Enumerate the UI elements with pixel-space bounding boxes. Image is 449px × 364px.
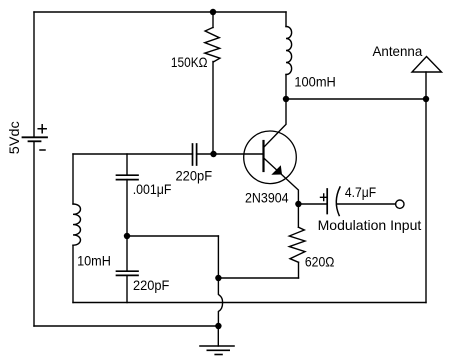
wire collector path [264, 99, 286, 147]
node dot antenna junction [423, 96, 429, 102]
wire .001 cap bottom stub [126, 180, 128, 236]
wire 620 bottom horizontal [218, 277, 298, 279]
capacitor C4 curved plate [336, 187, 340, 216]
capacitor C3 220pF bottom [117, 271, 139, 275]
battery minus sign [40, 149, 45, 151]
resistor R2 620 [289, 227, 305, 262]
capacitor C4 4.7uF straight plate [326, 189, 328, 214]
capacitor C1 220pF top [193, 144, 197, 165]
transistor Q1 circle [244, 131, 297, 184]
wire resistor drop top [212, 12, 214, 28]
node dot ground junction [215, 323, 221, 329]
node dot emitter junction [295, 201, 301, 207]
svg-text:10mH: 10mH [77, 252, 111, 268]
wire top rail [34, 11, 286, 13]
wire antenna lead [425, 72, 427, 99]
wire inner left upper [72, 154, 74, 204]
node dot cap junction [124, 233, 130, 239]
wire vertical to 620 bottom [217, 236, 219, 278]
ground symbol [200, 346, 234, 355]
wire base wire [214, 153, 264, 155]
svg-text:220pF: 220pF [176, 168, 213, 184]
resistor R1 150K [205, 27, 220, 62]
wire right rail [425, 99, 427, 303]
wire cap to node [197, 153, 214, 155]
wire inductor bottom lead [285, 75, 287, 100]
node dot top resistor [210, 9, 216, 15]
inductor L2 10mH [73, 204, 81, 245]
wire junction horizontal [127, 235, 218, 237]
wire inner left lower [72, 245, 74, 302]
svg-text:.001μF: .001μF [133, 181, 172, 197]
wire .001 cap top stub [126, 154, 128, 175]
wire resistor to base node [212, 62, 214, 155]
wire bottom outer [34, 325, 218, 327]
wire 620 top lead [297, 204, 299, 227]
wire left rail upper [33, 12, 35, 137]
inductor L1 100mH [286, 27, 292, 75]
wire ground lead [217, 326, 219, 346]
wire base rail left [73, 153, 193, 155]
wire cap bottom stub lower [126, 275, 128, 302]
modulation plus sign [321, 194, 328, 201]
node dot collector junction [283, 96, 289, 102]
svg-text:Antenna: Antenna [373, 43, 423, 59]
battery BT1 5Vdc [23, 137, 48, 141]
svg-text:2N3904: 2N3904 [245, 189, 289, 205]
svg-text:220pF: 220pF [133, 277, 169, 293]
transistor emitter arrow [271, 165, 282, 175]
svg-text:Modulation Input: Modulation Input [318, 217, 422, 233]
wire emitter path [264, 158, 299, 204]
antenna symbol [412, 57, 442, 73]
transistor base bar [262, 141, 264, 171]
wire top right corner [285, 12, 287, 27]
wire hop vertical with crossover [218, 278, 222, 326]
wire modulation right [338, 203, 396, 205]
modulation input terminal circle [396, 200, 404, 208]
wire modulation left [298, 203, 327, 205]
node dot 620 bottom junction [215, 275, 221, 281]
wire left rail lower [33, 141, 35, 326]
svg-text:100mH: 100mH [294, 74, 335, 90]
svg-text:620Ω: 620Ω [305, 254, 335, 270]
wire cap bottom stub upper [126, 236, 128, 271]
svg-text:150KΩ: 150KΩ [171, 54, 208, 70]
wire collector rail [286, 98, 426, 100]
node dot base junction [210, 151, 216, 157]
battery plus sign [38, 125, 46, 133]
wire 620 bottom lead [298, 262, 300, 278]
wire bottom inner [73, 302, 426, 304]
svg-text:5Vdc: 5Vdc [6, 121, 22, 154]
capacitor C2 .001uF [117, 175, 139, 179]
svg-text:4.7μF: 4.7μF [345, 184, 376, 200]
